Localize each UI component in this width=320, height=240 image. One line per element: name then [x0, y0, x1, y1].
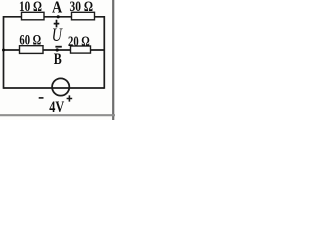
svg-text:60 Ω: 60 Ω — [19, 32, 41, 48]
svg-text:20 Ω: 20 Ω — [68, 34, 90, 50]
plus sign upper (U polarity) — [54, 20, 60, 28]
frame border right — [112, 0, 114, 120]
node B junction dot — [56, 48, 59, 51]
svg-text:A: A — [52, 0, 63, 17]
wire left vertical — [3, 16, 5, 89]
svg-text:10 Ω: 10 Ω — [19, 0, 42, 15]
svg-text:B: B — [54, 51, 62, 68]
source V1 circle — [52, 78, 69, 95]
wire top rail — [4, 16, 105, 18]
junction dot left middle — [2, 49, 5, 52]
svg-text:4V: 4V — [49, 99, 64, 116]
resistor R1 10ohm — [22, 12, 45, 19]
minus sign mid (U polarity) — [55, 46, 61, 48]
circuit schematic: two-branch resistor network with 4V source — [0, 0, 115, 120]
frame border bottom — [0, 114, 115, 116]
wire bottom rail — [4, 87, 105, 89]
resistor R2 30ohm — [72, 12, 95, 19]
resistor R3 60ohm — [20, 46, 44, 54]
plus sign source right — [67, 95, 73, 101]
resistor R4 20ohm — [71, 46, 91, 53]
svg-text:30 Ω: 30 Ω — [70, 0, 94, 15]
minus sign source left — [39, 97, 44, 99]
svg-text:U: U — [52, 26, 63, 46]
wire right vertical — [103, 16, 105, 89]
wire middle rail — [4, 49, 105, 51]
node A junction dot — [57, 15, 60, 18]
